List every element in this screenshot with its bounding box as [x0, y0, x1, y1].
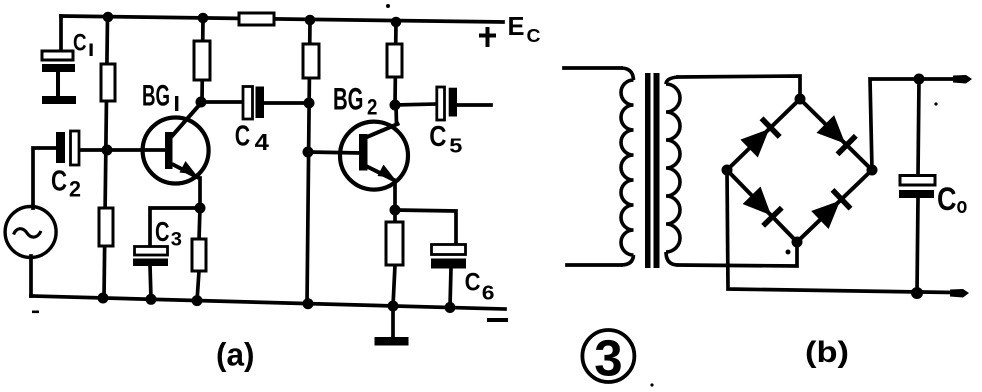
node BG1 collector — [196, 97, 207, 108]
capacitor C0 — [899, 176, 935, 199]
node top rail R5 — [305, 15, 316, 26]
label C5 — [429, 121, 462, 157]
arrow output plus — [953, 75, 972, 84]
wire BG2 base — [308, 152, 360, 153]
wire R3 collector vertical — [202, 18, 203, 101]
capacitor C6 — [431, 245, 466, 269]
capacitor C4 — [243, 87, 264, 120]
node rail R6 ground — [388, 301, 399, 312]
resistor R6 — [386, 222, 403, 265]
capacitor C5 — [437, 87, 457, 120]
wire C4 left — [201, 100, 243, 104]
capacitor C3 — [133, 247, 168, 267]
speck — [786, 250, 791, 255]
wire ground bottom rail — [31, 296, 505, 309]
svg-text:2: 2 — [69, 177, 81, 202]
capacitor C2 — [56, 131, 79, 165]
svg-text:C: C — [429, 121, 446, 153]
speck — [650, 383, 653, 386]
wire primary bottom lead — [567, 263, 621, 267]
diode D3 — [743, 187, 782, 226]
wire source top to C2 — [33, 148, 56, 208]
speck — [32, 311, 39, 314]
node BG2 base junction — [303, 147, 314, 158]
capacitor C1 — [42, 51, 76, 104]
svg-text:C: C — [527, 26, 541, 46]
wire R6 vertical — [393, 210, 397, 223]
transformer T1 core — [645, 73, 651, 268]
wire middle vertical — [307, 20, 310, 304]
svg-text:3: 3 — [171, 229, 182, 250]
svg-text:3: 3 — [594, 330, 622, 387]
svg-text:o: o — [957, 193, 968, 218]
wire BG2 collector diagonal — [367, 124, 398, 137]
node rail C3 — [146, 294, 157, 305]
wire BG1 emitter vertical — [198, 178, 202, 208]
node bridge right — [867, 165, 878, 176]
ground — [375, 337, 409, 346]
wire BG2 collector vertical — [394, 105, 398, 124]
label C1 — [73, 30, 93, 57]
node bridge left — [722, 165, 733, 176]
label BG2 — [333, 81, 377, 120]
wire C2 to node A — [79, 148, 107, 152]
label C2 — [51, 166, 81, 202]
node output minus — [911, 287, 923, 299]
label minus output — [487, 318, 508, 322]
svg-text:BG: BG — [142, 80, 170, 113]
svg-text:C: C — [235, 121, 250, 153]
label C6 — [465, 269, 495, 305]
speck — [386, 4, 390, 8]
resistor R8 decoupling in rail — [239, 13, 274, 25]
label C4 — [235, 121, 269, 156]
node bridge bottom — [792, 237, 803, 248]
wire primary top lead — [564, 66, 621, 70]
wire edge top-right — [800, 99, 872, 170]
node rail mid — [303, 298, 314, 309]
wire C1 drop from rail — [59, 16, 63, 52]
node rail R2 — [98, 293, 109, 304]
svg-text:(b): (b) — [805, 336, 849, 369]
wire R4 vertical — [199, 208, 200, 240]
node BG2 emitter — [390, 205, 401, 216]
node C4 right junction — [304, 98, 315, 109]
wire C0 top stem — [918, 79, 919, 176]
resistor R2 — [99, 208, 113, 246]
node dots left circuit — [98, 12, 456, 313]
wire C5 left — [395, 104, 437, 105]
resistor R5 — [303, 44, 319, 78]
label figure number 3 — [582, 330, 634, 387]
svg-text:C: C — [73, 30, 87, 57]
wire secondary top to bridge — [678, 76, 800, 99]
wire R4 to rail — [197, 271, 199, 301]
wire bridge right to top rail — [870, 79, 956, 170]
wire bridge left to bottom rail — [727, 170, 952, 293]
wire R7 vertical — [395, 22, 396, 105]
wire edge left-bottom — [727, 170, 797, 242]
node top rail R3 — [198, 13, 209, 24]
svg-text:C: C — [51, 166, 67, 198]
svg-text:2: 2 — [367, 95, 377, 120]
transistor BG2 — [340, 122, 408, 190]
resistor R4 — [192, 239, 206, 271]
node BG1 emitter — [195, 203, 206, 214]
wire C4 right — [264, 101, 309, 105]
wire BG2 emitter vertical — [393, 182, 397, 210]
resistor R3 — [194, 41, 210, 80]
wire BG1 collector diagonal — [172, 103, 202, 137]
svg-text:E: E — [508, 11, 525, 41]
wire C3 branch — [150, 208, 200, 248]
bridge diamond wires — [727, 99, 872, 242]
diode D1 — [740, 118, 779, 157]
node output plus — [914, 74, 925, 85]
svg-text:C: C — [937, 181, 957, 217]
wire C0 bottom stem — [917, 198, 918, 293]
wire secondary bottom to bridge — [678, 242, 797, 266]
node C2 junction — [102, 145, 113, 156]
node bridge top — [795, 94, 806, 105]
node top rail R7 — [391, 17, 402, 28]
wire BG1 base — [107, 148, 166, 152]
wire C3 stem — [150, 265, 151, 299]
wire C5 output — [457, 103, 491, 107]
wire top supply rail — [61, 16, 503, 22]
speck — [934, 102, 937, 105]
node BG2 collector — [390, 100, 401, 111]
label C0 — [937, 181, 967, 218]
wire edge left-top — [727, 99, 800, 170]
svg-text:BG: BG — [333, 81, 364, 117]
svg-text:C: C — [465, 269, 481, 297]
resistor R1 — [101, 64, 115, 101]
resistor R7 — [387, 44, 402, 77]
diode D2 — [817, 115, 856, 154]
node rail R4 — [192, 295, 203, 306]
arrow output minus — [950, 289, 969, 298]
svg-text:4: 4 — [255, 129, 269, 155]
transistor BG1 — [143, 118, 209, 184]
label BG1 — [142, 80, 178, 113]
wire source bottom — [29, 256, 33, 296]
transformer T1 secondary winding — [666, 77, 680, 265]
wire C6 stem — [450, 268, 451, 307]
svg-text:5: 5 — [449, 135, 462, 157]
node rail C6 — [445, 302, 456, 313]
wire edge bottom-right — [797, 170, 872, 242]
diode D4 — [811, 190, 850, 229]
AC source G1 — [5, 207, 56, 258]
wire R6 to rail — [393, 265, 395, 306]
svg-text:(a): (a) — [216, 337, 255, 373]
svg-text:C: C — [155, 216, 170, 247]
wire ground stem — [391, 306, 395, 338]
transformer T1 primary winding — [621, 68, 634, 265]
svg-text:6: 6 — [482, 283, 495, 305]
node top rail left — [103, 12, 114, 23]
wire left bias vertical — [104, 17, 108, 298]
wire C6 branch — [395, 210, 456, 245]
label C3 — [155, 216, 182, 250]
label +Ec supply — [479, 11, 541, 47]
